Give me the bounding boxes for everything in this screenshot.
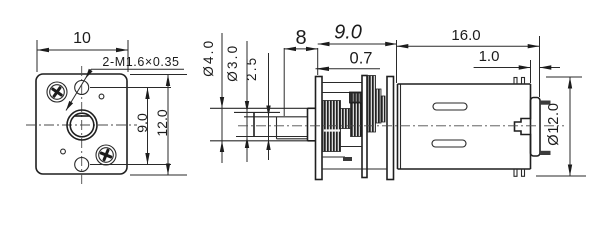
svg-text:10: 10 [73,30,91,47]
shaft top extension + bushing top edge [210,107,308,109]
dim 0.7 line [316,68,381,70]
crimp tab top right [522,78,525,85]
gear G3 [351,101,363,137]
gear G1 output stack [323,101,341,152]
shaft flat chord [75,115,90,117]
gear G5 [376,89,382,123]
bushing bottom edge + extension [210,140,308,142]
gearbox case bottom line [322,168,387,170]
dim 8 line [284,48,318,50]
dim 8 extension right [317,48,319,75]
dim 16.0 extension right [539,36,541,97]
dia4.0 dimension vertical line [221,33,223,163]
dim 12.0 line [167,75,169,176]
dim 12.0 extension line top (plate top) [130,74,187,76]
gearbox case top line [322,82,362,84]
2.5 dimension vertical line [268,53,270,160]
vertical centerline [81,66,83,185]
motor can right edge with brush bump [515,84,531,169]
gearbox rear plate [387,77,394,180]
dimension 10 line [37,49,128,51]
dim 8 extension left [283,48,285,116]
bottom boss tab [343,157,352,161]
dim 1.0 line left segment [474,67,531,69]
svg-text:2.5: 2.5 [244,56,259,81]
gear dark pinion block [350,92,363,103]
leader arrowhead at center circle [66,101,73,111]
gear bottom small line [340,146,362,148]
crimp tab bottom right [522,169,525,176]
svg-text:Ø12.0: Ø12.0 [546,102,562,146]
shaft flat line + extension [244,116,308,118]
side view centerline [238,125,564,127]
gear G2 [341,109,351,129]
vent slot top [433,103,467,110]
screw bottom-right [96,145,116,165]
motor front face [397,84,399,169]
gear bottom line [322,156,345,158]
gear top axle line [322,92,350,94]
dimension 10 extension lines [36,40,38,72]
bushing body [308,107,316,109]
svg-text:9.0: 9.0 [334,22,362,44]
dim 9.0 extension line top (hole center) [90,87,171,89]
svg-text:1.0: 1.0 [479,48,500,65]
gearbox middle plate [362,76,367,178]
shaft bottom edge + extension [236,136,308,138]
svg-text:Ø3.0: Ø3.0 [225,44,240,82]
leader line to top hole [66,69,91,110]
dim 16.0 extension left (motor face up) [396,40,398,83]
motor can bottom [398,168,531,170]
svg-text:9.0: 9.0 [134,113,150,133]
svg-text:2-M1.6×0.35: 2-M1.6×0.35 [102,55,179,69]
shaft dia3 top edge + extension [234,111,280,113]
small pin hole right [99,94,104,99]
small pin hole left [61,149,66,154]
gear G4 tall [368,76,376,133]
flat step [276,117,278,139]
center shaft circle [70,113,94,137]
bottom mounting hole M1.6 [75,158,89,172]
end cap [531,98,541,157]
dim 9.0 line (top, italic) [318,43,397,45]
dim 9.0 extension line bottom [90,164,171,166]
horizontal centerline [26,124,137,126]
svg-text:Ø4.0: Ø4.0 [201,39,216,77]
svg-text:8: 8 [295,27,306,49]
svg-text:16.0: 16.0 [451,27,480,44]
svg-text:0.7: 0.7 [350,50,373,68]
dim 1.0 line right segment [540,67,561,69]
terminal top [540,101,551,105]
motor can top [398,83,531,85]
dim 1.0 extension left (can edge up) [530,60,532,83]
shaft tip face [253,112,255,136]
plate outline [36,74,127,174]
dim 9.0 line [147,88,149,165]
dia 12.0 extension stub bottom [536,175,586,177]
bushing front face [307,108,309,141]
flat section bottom [277,138,308,140]
center bearing outer circle [67,110,97,140]
terminal bottom [540,151,551,155]
crimp tab top left [514,78,517,85]
dim 12.0 extension line bottom (plate bottom) [130,174,187,176]
dimension 10 arrows [37,48,49,52]
gear G6 [381,96,385,122]
screw top-left [47,82,67,102]
dia 12.0 dimension line [569,77,571,176]
dim 16.0 line [397,45,540,47]
gearbox front plate [316,77,323,180]
dia 12.0 extension stub top [546,76,582,78]
dia3.0 dimension vertical line [246,41,248,162]
vent slot bottom [432,140,466,147]
top mounting hole M1.6 [75,81,89,95]
svg-text:12.0: 12.0 [154,109,170,136]
leader arrowhead at hole [86,69,93,79]
leader shoulder [91,68,184,70]
crimp tab bottom left [514,169,517,176]
